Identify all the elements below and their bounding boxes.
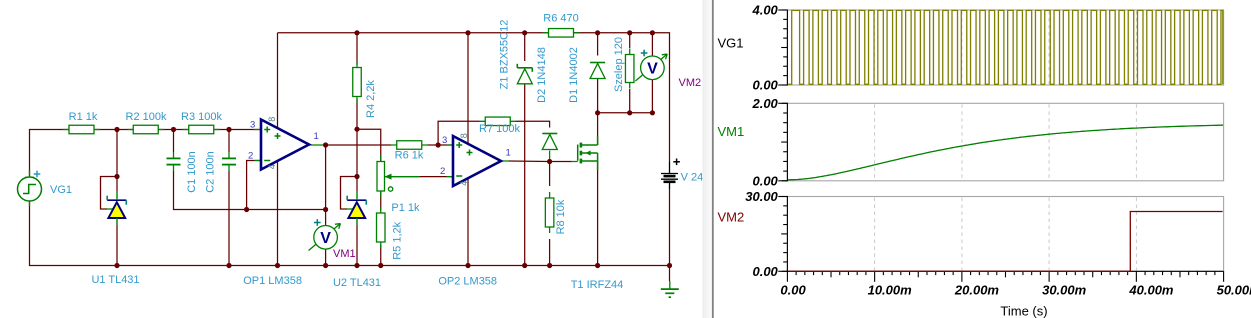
wire OP2 pin2 lead [447, 176, 454, 178]
wire node B down to C1 [173, 130, 175, 153]
svg-text:8: 8 [267, 117, 277, 122]
svg-text:V 24: V 24 [681, 172, 704, 184]
node C2 ground [226, 263, 231, 268]
svg-text:2: 2 [248, 151, 253, 162]
node OP2 supply tap [465, 30, 470, 35]
wire OP2 pin3 lead [447, 144, 454, 146]
resistor R5 [377, 207, 404, 260]
svg-text:2.00: 2.00 [751, 96, 778, 111]
svg-text:V: V [320, 230, 331, 247]
node R5 ground [378, 263, 383, 268]
node U1 cathode/ref [114, 174, 119, 179]
svg-text:R2 100k: R2 100k [126, 111, 167, 123]
node OP2 pin3 node [436, 142, 441, 147]
wire bottom ground rail [30, 201, 670, 266]
svg-text:VG1: VG1 [718, 36, 744, 51]
wire R5 to rail [380, 245, 382, 266]
svg-text:R3 100k: R3 100k [181, 111, 222, 123]
wire rail to Z1 [524, 33, 526, 61]
wire D2 anode to gate node [549, 151, 551, 162]
wire R8 to rail [549, 239, 551, 266]
wire drain node to T1 drain [597, 113, 599, 145]
svg-text:Szelep 120: Szelep 120 [613, 37, 625, 92]
resistor R8 [545, 192, 567, 234]
wire gate node down to R8 [549, 162, 551, 187]
wire OP2 pin 4 to rail [467, 178, 469, 266]
wire R4 bottom to node D [356, 99, 358, 129]
wire rail to R4 [356, 33, 358, 65]
wire VG1 to R1 to node A [30, 130, 118, 178]
wire node C to OP1 pin 3 [229, 129, 261, 131]
voltmeter VM2 [635, 50, 701, 89]
node C [226, 127, 231, 132]
svg-text:1: 1 [314, 131, 319, 142]
svg-text:R6 1k: R6 1k [395, 150, 424, 162]
node A [114, 127, 119, 132]
transistor T1 IRFZ44 [571, 136, 624, 291]
wire VM1 top lead [325, 210, 327, 227]
trace VM1 [788, 125, 1223, 180]
node OP1 pin2 junction [244, 207, 249, 212]
node U2 cathode/ref [354, 174, 359, 179]
node Szelep bottom node [627, 110, 632, 115]
wire R6 to OP2 pin 3 [428, 144, 454, 146]
resistor Szelep [613, 37, 634, 92]
svg-text:Z1 BZX55C12: Z1 BZX55C12 [499, 20, 511, 90]
wire VM2 bottom to drain node [651, 80, 653, 113]
node VM2 bottom node [650, 110, 655, 115]
wire node D down to U2 [356, 129, 358, 191]
node R8 ground [547, 263, 552, 268]
svg-text:2: 2 [440, 166, 445, 177]
svg-text:R4 2,2k: R4 2,2k [365, 80, 377, 118]
resistor R6b [543, 13, 580, 38]
trace VG1 PWM [788, 10, 1223, 84]
trace VM2 [789, 212, 1223, 272]
diode Z1 [499, 20, 533, 90]
svg-text:VM2: VM2 [679, 77, 702, 89]
plot y axes [781, 10, 787, 272]
svg-text:4: 4 [459, 181, 469, 186]
svg-text:4: 4 [267, 164, 277, 169]
node OP1 output [323, 142, 328, 147]
resistor R3 [181, 111, 222, 134]
svg-text:VM1: VM1 [718, 124, 745, 139]
svg-text:10.00m: 10.00m [868, 283, 913, 298]
plot panel boxes [787, 10, 1223, 85]
node U1 ground [114, 263, 119, 268]
plot gridlines [875, 11, 1137, 270]
svg-text:R8 10k: R8 10k [555, 199, 567, 234]
capacitor C1 [167, 151, 199, 193]
TL431 U1 ref loop wire [101, 177, 118, 210]
svg-text:D2 1N4148: D2 1N4148 [536, 47, 548, 103]
wire OP1 pin 4 to rail [277, 161, 279, 266]
node Szelep top [627, 30, 632, 35]
node U2 ground [354, 263, 359, 268]
svg-text:30.00m: 30.00m [1042, 283, 1087, 298]
wire rail to VM2 [651, 33, 653, 56]
svg-text:30.00: 30.00 [745, 189, 778, 204]
svg-text:0.00: 0.00 [752, 264, 778, 279]
node OP1 pin4 ground [275, 263, 280, 268]
wire OP1 output to R6 [326, 144, 391, 146]
wire R7 to D2 cathode [516, 121, 550, 127]
svg-text:C2 100n: C2 100n [204, 151, 216, 193]
wire node A down to U1 [116, 130, 118, 192]
node D1 top [595, 30, 600, 35]
TL431 U1 [91, 191, 139, 286]
wire output node down to VM1 tap [325, 145, 327, 210]
node VM2 top [650, 30, 655, 35]
resistor R4 [353, 62, 377, 118]
diode D1 [568, 47, 605, 103]
plot axis labels [745, 3, 1251, 298]
svg-text:Time (s): Time (s) [1000, 304, 1047, 318]
wire Szelep bottom to drain node [629, 89, 631, 113]
wire gate node to T1 gate [550, 161, 572, 163]
op-amp OP1 [243, 117, 319, 287]
resistor R7 [479, 117, 520, 135]
svg-text:8: 8 [459, 133, 469, 138]
wire U1 anode to bottom rail [116, 225, 118, 266]
wire drain node run [598, 112, 653, 114]
resistor R2 [126, 111, 167, 134]
svg-text:T1 IRFZ44: T1 IRFZ44 [571, 279, 624, 291]
svg-text:R1 1k: R1 1k [69, 111, 98, 123]
node Z1 top [522, 30, 527, 35]
generator VG1 [18, 170, 73, 206]
wire node A to node C along R2 R3 [117, 129, 229, 131]
resistor R1 [63, 111, 100, 134]
node drain node [595, 110, 600, 115]
wire pin3 node up to R7 [438, 121, 479, 145]
svg-text:4.00: 4.00 [751, 3, 778, 18]
svg-text:1: 1 [506, 148, 511, 159]
wire OP1 output lead [309, 144, 326, 146]
TL431 U2 [333, 191, 381, 289]
wire P1 wiper to OP2 pin 2 [385, 176, 454, 178]
wire OP1 pin2 lead [255, 160, 262, 162]
resistor R6 [391, 141, 428, 150]
voltmeter VM1 [309, 219, 356, 260]
svg-text:D1 1N4002: D1 1N4002 [568, 47, 580, 103]
svg-text:3: 3 [442, 135, 447, 146]
node B [171, 127, 176, 132]
diode D2 [536, 47, 557, 149]
svg-text:V: V [647, 60, 658, 77]
wire P1 to R5 [380, 191, 382, 210]
wire rail to D1 [597, 33, 599, 56]
node T1 source ground [595, 263, 600, 268]
svg-text:0.00: 0.00 [752, 78, 778, 93]
node VM1 tap [323, 207, 328, 212]
svg-text:20.00m: 20.00m [954, 283, 1000, 298]
wire OP1 pin 8 supply [277, 33, 279, 129]
op-amp OP2 [438, 133, 510, 287]
svg-text:R6 470: R6 470 [543, 13, 578, 25]
node Z1 ground [522, 263, 527, 268]
wire OP1 pin3 lead [254, 129, 261, 131]
svg-text:3: 3 [250, 120, 255, 131]
node R4 top [354, 30, 359, 35]
wire 12V supply rail left segment [278, 32, 550, 34]
wire D1 anode to drain node [597, 79, 599, 113]
svg-text:VM2: VM2 [718, 210, 745, 225]
svg-text:VM1: VM1 [333, 248, 356, 260]
wire node C down to C2 [228, 130, 230, 153]
wire OP2 output lead [501, 160, 509, 162]
wire rail to Szelep [629, 33, 631, 48]
node OP2 pin4 ground [465, 263, 470, 268]
capacitor C2 [204, 151, 236, 193]
wire T1 gate lead [571, 161, 578, 163]
svg-text:P1 1k: P1 1k [391, 202, 420, 214]
battery V 24 [661, 159, 703, 190]
wire OP2 pin 8 supply [467, 33, 469, 144]
wire T1 source to rail [597, 161, 599, 266]
svg-text:C1 100n: C1 100n [186, 151, 198, 193]
wire OP2 output to gate node [509, 160, 550, 163]
wire VM1 bottom lead [325, 249, 327, 266]
svg-text:0.00: 0.00 [780, 283, 806, 298]
svg-text:R7 100k: R7 100k [479, 123, 520, 135]
svg-text:50.00m: 50.00m [1217, 283, 1251, 298]
TL431 U2 ref loop wire [341, 177, 358, 210]
svg-text:R5 1,2k: R5 1,2k [392, 221, 404, 259]
svg-text:U1 TL431: U1 TL431 [91, 274, 139, 286]
svg-text:VG1: VG1 [50, 184, 72, 196]
wire battery plus rail right segment [573, 33, 670, 162]
wire rail to ground [669, 266, 671, 282]
ground symbol [661, 281, 679, 297]
wire C1 bottom feedback run [174, 171, 326, 210]
node VM1 ground [323, 263, 328, 268]
node battery ground node [667, 263, 672, 268]
svg-text:OP2 LM358: OP2 LM358 [438, 276, 497, 288]
wire OP1 pin 2 to feedback [247, 161, 261, 210]
wire C2 bottom to rail [228, 171, 230, 266]
wire Z1 anode down to rail [524, 85, 526, 266]
node D [354, 127, 359, 132]
node T1 gate node [547, 159, 552, 164]
plot x axis [787, 271, 1224, 282]
svg-text:OP1 LM358: OP1 LM358 [243, 275, 302, 287]
svg-text:0.00: 0.00 [752, 173, 778, 188]
wire U2 anode to rail [356, 225, 358, 266]
wire battery minus to rail [669, 189, 671, 266]
wire node D to P1 top [357, 129, 381, 161]
svg-text:U2 TL431: U2 TL431 [333, 277, 381, 289]
window separator [703, 0, 712, 318]
potentiometer P1 [377, 155, 420, 214]
svg-text:40.00m: 40.00m [1128, 283, 1174, 298]
